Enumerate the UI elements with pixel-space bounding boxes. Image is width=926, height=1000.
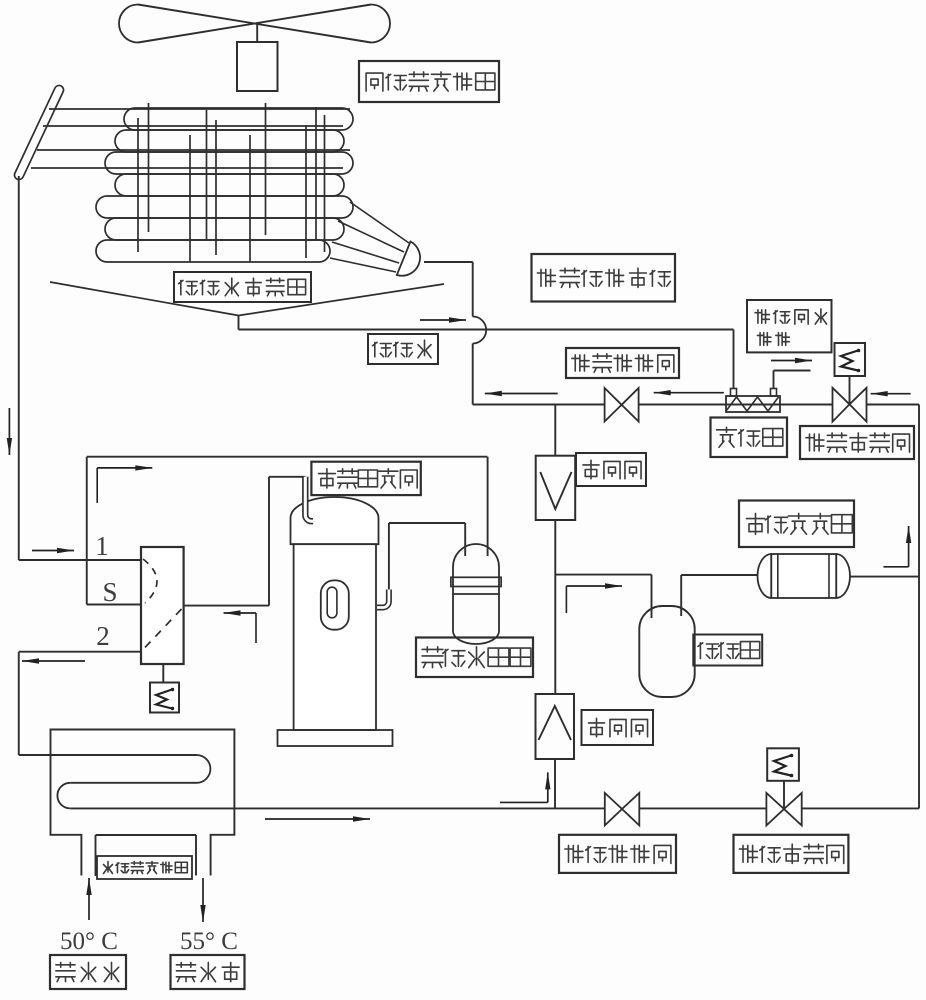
svg-text:50° C: 50° C bbox=[60, 928, 118, 955]
compressor body bbox=[294, 544, 376, 730]
compressor suction pipe bbox=[305, 477, 313, 521]
coil support fins bbox=[137, 118, 139, 252]
coil serpentine loops bbox=[124, 108, 353, 130]
heating expansion valve bbox=[605, 388, 622, 422]
exchanger tube middle bbox=[70, 782, 196, 784]
label condensate water bbox=[368, 334, 438, 364]
accumulator band bbox=[451, 577, 501, 586]
port 2 down wire bbox=[18, 652, 20, 755]
label hot water out bbox=[171, 955, 245, 989]
compressor sight window bbox=[321, 580, 349, 629]
cooling solenoid valve bbox=[766, 793, 784, 826]
collector vertex drop wire bbox=[238, 316, 240, 330]
label cooling expansion valve bbox=[559, 835, 676, 873]
label four-way valve bbox=[311, 462, 420, 495]
label warmed water drained bbox=[747, 300, 832, 352]
coil header feed lines bbox=[49, 108, 350, 110]
subcooler drain wire bbox=[773, 371, 775, 389]
right port flow arrow bbox=[255, 613, 257, 643]
right side wire bbox=[918, 405, 920, 809]
hot water in arrow bbox=[88, 878, 90, 920]
four-way valve stem bbox=[162, 664, 164, 683]
flow arrow left 1 bbox=[485, 393, 558, 395]
receiver tank bbox=[639, 606, 694, 697]
check valve 1 bbox=[536, 456, 576, 520]
receiver inlet flow arrow bbox=[565, 586, 567, 613]
check valve 2 bbox=[536, 694, 575, 759]
check valve 1 bottom wire bbox=[554, 520, 556, 694]
cooling solenoid coil box bbox=[767, 748, 799, 781]
port 2 wire bbox=[19, 651, 141, 653]
label cooling solenoid valve bbox=[734, 835, 849, 873]
bottom flow arrow bbox=[265, 818, 370, 820]
check valve 2 bottom wire bbox=[554, 759, 556, 809]
label dry filter bbox=[739, 501, 854, 548]
condensate flow arrow bbox=[420, 319, 466, 321]
condensate drain line bbox=[239, 329, 734, 331]
port 1 flow arrow bbox=[32, 550, 74, 552]
suction flow arrow bbox=[96, 468, 98, 503]
suction return top wire bbox=[87, 456, 488, 458]
label heating expansion valve bbox=[566, 348, 679, 378]
accumulator inlet wire bbox=[487, 457, 489, 556]
subcooler feed wire bbox=[733, 330, 735, 390]
receiver outlet wire bbox=[680, 575, 682, 616]
port 2 flow arrow bbox=[22, 660, 85, 662]
label subcooler bbox=[711, 418, 788, 458]
coil outlet down wire bbox=[18, 176, 20, 560]
svg-text:1: 1 bbox=[95, 531, 109, 561]
subcooler terminal left bbox=[731, 389, 737, 397]
exchanger u-turn right bbox=[197, 755, 211, 783]
label check valve 1 bbox=[576, 453, 646, 486]
flow arrow left 3 bbox=[871, 393, 911, 395]
coil outlet flow arrow bbox=[8, 408, 10, 455]
heating solenoid valve stem bbox=[849, 376, 851, 404]
receiver inlet wire bbox=[555, 574, 651, 576]
label hot water in bbox=[50, 955, 126, 989]
water heat exchanger shell bbox=[51, 730, 235, 876]
spray nozzle bbox=[397, 242, 420, 276]
line hop over condensate line bbox=[473, 317, 487, 344]
hot water out arrow bbox=[202, 878, 204, 922]
label accumulator bbox=[416, 638, 533, 678]
filter flow arrow bbox=[883, 566, 908, 568]
label heating cycle system bbox=[532, 254, 676, 302]
heating main line bbox=[473, 404, 919, 406]
four-way valve right port wire bbox=[184, 605, 269, 607]
compressor discharge stub bbox=[377, 590, 389, 608]
check valve 1 top wire bbox=[554, 405, 556, 456]
port S wire bbox=[87, 604, 141, 606]
nozzle outlet line bbox=[424, 261, 473, 263]
label receiver bbox=[693, 635, 762, 666]
heating solenoid valve bbox=[833, 388, 850, 422]
four-way valve dashed path 1-S bbox=[143, 559, 157, 603]
exchanger inlet wire bbox=[19, 754, 197, 756]
cooling main line bbox=[70, 807, 919, 809]
suction return left wire bbox=[86, 457, 88, 605]
four-way valve dashed path right-2 bbox=[145, 609, 182, 648]
riser wire lower bbox=[472, 344, 474, 405]
subcooler terminal right bbox=[771, 389, 777, 397]
fan blades bbox=[138, 5, 371, 43]
four-way solenoid coil box bbox=[150, 683, 179, 713]
dry filter outlet wire bbox=[850, 576, 919, 578]
riser wire upper bbox=[472, 262, 474, 317]
compressor base bbox=[278, 730, 393, 746]
label water-cooled heat exchanger bbox=[97, 856, 192, 879]
svg-text:55° C: 55° C bbox=[180, 928, 238, 955]
label check valve 2 bbox=[582, 710, 654, 745]
check valve 2 flow arrow bbox=[500, 801, 548, 803]
condensate collector left slant bbox=[50, 282, 239, 316]
heating solenoid coil box bbox=[835, 343, 866, 376]
compressor dome bbox=[291, 497, 379, 544]
accumulator tank bbox=[453, 544, 499, 644]
drain flow arrow bbox=[771, 360, 812, 362]
four-way valve body bbox=[141, 547, 184, 664]
discharge wire bbox=[388, 523, 390, 590]
port 1 wire bbox=[19, 559, 141, 561]
svg-text:2: 2 bbox=[96, 621, 110, 651]
coil outlet funnel lines bbox=[350, 202, 409, 243]
condensate collector right slant bbox=[239, 284, 445, 316]
label heating solenoid valve bbox=[800, 426, 914, 459]
coil header tube bbox=[13, 84, 65, 181]
subcooler body bbox=[726, 396, 780, 412]
cooling expansion valve bbox=[605, 793, 622, 826]
dry filter bbox=[758, 554, 851, 598]
label condensate collector bbox=[174, 272, 311, 302]
fan motor stem bbox=[256, 24, 258, 43]
fan motor box bbox=[237, 42, 278, 91]
exchanger u-turn left bbox=[57, 783, 70, 809]
flow arrow left 2 bbox=[654, 392, 724, 394]
cooling solenoid valve stem bbox=[783, 781, 785, 809]
svg-text:S: S bbox=[102, 577, 117, 607]
label air-cooled heat exchanger bbox=[359, 61, 499, 102]
